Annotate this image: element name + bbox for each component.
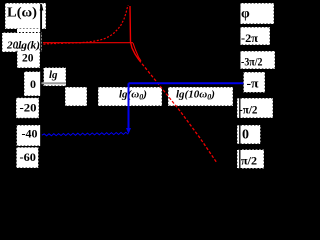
svg-text:lg(ω0): lg(ω0) xyxy=(119,89,147,102)
svg-text:φ: φ xyxy=(241,7,250,22)
svg-text:-20: -20 xyxy=(20,102,37,114)
svg-text:-π: -π xyxy=(247,76,259,91)
svg-text:π/2: π/2 xyxy=(241,153,257,167)
svg-text:0: 0 xyxy=(242,128,249,143)
svg-text:-2π: -2π xyxy=(241,31,258,45)
svg-text:20: 20 xyxy=(22,51,34,65)
svg-text:L(ω): L(ω) xyxy=(7,6,37,21)
svg-text:-40: -40 xyxy=(22,129,38,141)
svg-text:lg: lg xyxy=(49,69,58,81)
svg-text:-60: -60 xyxy=(20,152,37,164)
svg-text:-3π/2: -3π/2 xyxy=(241,55,263,69)
svg-text:-π/2: -π/2 xyxy=(239,103,258,117)
svg-text:0: 0 xyxy=(30,77,36,91)
